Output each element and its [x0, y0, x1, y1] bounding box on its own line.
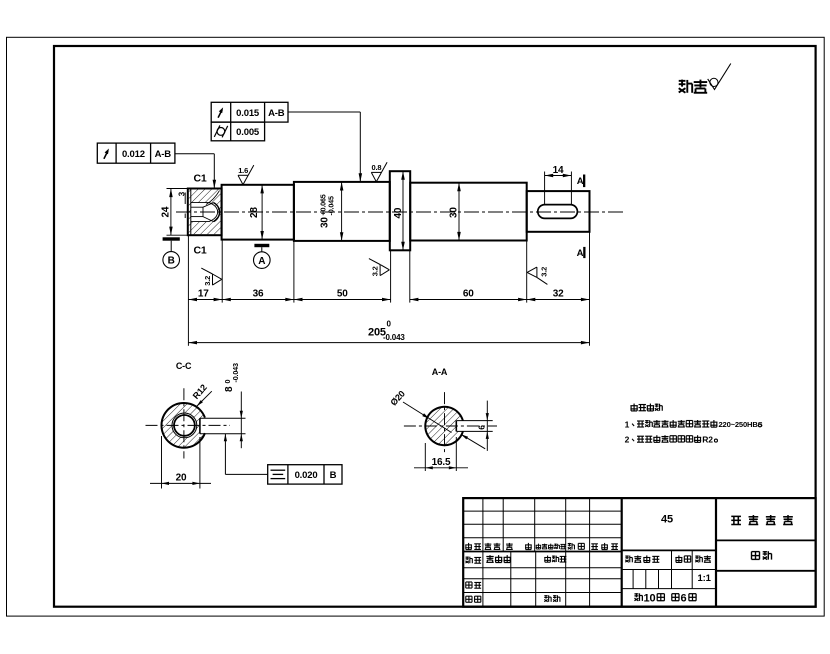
svg-text:20: 20 [176, 473, 187, 484]
dimension 40 text [393, 207, 404, 218]
leader from upper tolerance frame to shaft [288, 111, 360, 113]
svg-text:1: 1 [625, 419, 630, 429]
dimension 28 line and arrows [261, 185, 263, 240]
dimension 36 [222, 299, 294, 301]
svg-text:16.5: 16.5 [432, 457, 451, 468]
svg-text:220~250HBS: 220~250HBS [719, 420, 763, 429]
dimension 30 right text [449, 207, 460, 218]
svg-text:C1: C1 [194, 245, 207, 257]
general roughness symbol Qiyu [679, 80, 686, 82]
sheet count row [634, 593, 638, 595]
title block signature rows grid [482, 552, 484, 607]
svg-text:1.6: 1.6 [238, 166, 248, 175]
dimension 30 tolerance text [318, 194, 335, 228]
stage mark cells [622, 588, 716, 590]
svg-text:2: 2 [625, 435, 630, 445]
A-A hatched circle with keyway notch [425, 407, 463, 445]
svg-text:28: 28 [249, 207, 260, 218]
svg-text:50: 50 [337, 288, 348, 299]
dimension 30 tol line and arrows [341, 182, 343, 241]
A-A keyway corner leader [461, 434, 485, 449]
svg-text:30: 30 [449, 207, 460, 218]
A-A keyway slot lines [455, 421, 457, 432]
shaft collar (dia40) outline [390, 171, 410, 250]
svg-text:36: 36 [253, 288, 264, 299]
dimension 24 text [161, 206, 172, 217]
svg-text:60: 60 [463, 288, 474, 299]
svg-text:8: 8 [224, 386, 235, 392]
title block revision table grid [482, 498, 484, 551]
svg-text:A-B: A-B [268, 108, 285, 119]
section1 chamfer edge line [190, 189, 192, 235]
svg-text:-0.045: -0.045 [327, 196, 336, 215]
svg-text:24: 24 [161, 206, 172, 217]
A-A keyway width dim 6 [486, 401, 488, 451]
svg-text:14: 14 [553, 165, 564, 176]
inner border frame [54, 46, 816, 607]
svg-text:A: A [577, 248, 584, 259]
revision table header texts [468, 543, 470, 550]
C-C keyway notch whiteout [200, 418, 246, 434]
C-C dim 20 [161, 436, 163, 489]
C-C radius leader R12 [191, 382, 209, 401]
shaft section 4 (dia30) outline [410, 183, 527, 241]
dimension 40 line and arrows [402, 171, 404, 250]
svg-text:C1: C1 [194, 173, 207, 185]
dimension 17 [188, 299, 222, 301]
datum B symbol [163, 237, 180, 240]
svg-text:3.2: 3.2 [203, 276, 212, 286]
A-A outer circle with keyway gap [425, 407, 463, 445]
svg-text:A-B: A-B [155, 149, 172, 160]
svg-text:0.8: 0.8 [372, 163, 382, 172]
svg-text:0.005: 0.005 [236, 127, 260, 138]
small dim 3 on center hole [178, 191, 187, 196]
dimension 14 line and arrows [545, 175, 572, 177]
shaft centerline [176, 211, 626, 213]
technical requirements title [633, 404, 635, 411]
leader from symmetry frame to keyway [225, 473, 267, 475]
C-C centerlines [146, 424, 231, 426]
svg-text:R12: R12 [191, 382, 209, 401]
shaft section 5 (dia20) outline [527, 191, 590, 232]
material cell 45 [622, 549, 716, 551]
datum A symbol [254, 244, 269, 247]
svg-text:-0.043: -0.043 [383, 333, 405, 342]
roughness 3.2 at left shoulder [213, 274, 222, 279]
svg-text:6: 6 [477, 425, 487, 430]
center hole mouth arc [214, 203, 220, 222]
A-A diameter leader D20 [388, 389, 407, 408]
leader from lower tolerance frame to shaft [175, 153, 214, 155]
svg-text:B: B [330, 470, 337, 481]
svg-text:17: 17 [198, 288, 209, 299]
dimension 24 line and arrows [170, 189, 172, 236]
svg-text:10: 10 [644, 593, 656, 605]
C-C keyway slot lines [199, 418, 201, 434]
svg-text:A-A: A-A [432, 367, 448, 377]
roughness 3.2 at right shoulder [527, 267, 537, 272]
dimension 32 [527, 299, 590, 301]
university cell [716, 539, 816, 541]
A-A dim 16.5 [424, 443, 426, 471]
C-C bore circle thick [174, 415, 195, 436]
svg-text:40: 40 [393, 207, 404, 218]
shaft section1 hatching with center hole cutout [189, 189, 221, 234]
svg-text:3.2: 3.2 [540, 267, 549, 277]
svg-text:-0.043: -0.043 [231, 363, 240, 382]
dimension 30 right line and arrows [458, 183, 460, 241]
dimension 24 extension lines [167, 188, 188, 190]
A-A keyway notch whiteout [456, 421, 492, 432]
C-C hatched ring [161, 403, 206, 448]
svg-text:32: 32 [553, 288, 564, 299]
extension lines for length dimensions [187, 235, 189, 345]
shaft section 1 (dia24) outline [188, 189, 222, 236]
roughness 1.6 on section2 [238, 175, 243, 184]
svg-text:45: 45 [661, 514, 673, 526]
svg-text:A: A [577, 176, 584, 187]
C-C thread circle thin [172, 413, 197, 438]
center hole cone lines [191, 206, 203, 208]
svg-text:0.012: 0.012 [122, 149, 145, 160]
C-C keyway width dim 8 0/-0.043 [240, 392, 242, 449]
signature row texts [465, 556, 468, 558]
svg-text:A: A [258, 256, 265, 267]
tolerance frame cylindricity 0.005 row2 [211, 122, 264, 141]
A-A centerlines [404, 425, 497, 427]
keyway slot on section 5 [538, 205, 578, 219]
shaft section 3 (dia30) outline [294, 182, 390, 241]
svg-text:Ø20: Ø20 [388, 389, 407, 408]
stage mark row [622, 569, 716, 571]
svg-text:0.015: 0.015 [236, 108, 260, 119]
dimension 50 [294, 299, 391, 301]
dimension 14 extension lines [544, 172, 546, 205]
svg-text:3.2: 3.2 [371, 266, 380, 276]
svg-text:1:1: 1:1 [698, 573, 712, 584]
svg-text:0: 0 [387, 320, 392, 329]
C-C outer circle with keyway gap [161, 403, 204, 448]
tolerance frame runout 0.012 A-B [97, 143, 175, 163]
svg-text:0.020: 0.020 [295, 470, 318, 481]
svg-text:B: B [168, 256, 175, 267]
dimension 28 text [249, 207, 260, 218]
part name cell [716, 570, 816, 572]
svg-text:C-C: C-C [176, 361, 192, 371]
symmetry tolerance frame 0.020 B [268, 465, 342, 484]
overall dimension 205 line [188, 342, 589, 344]
svg-text:6: 6 [681, 593, 687, 605]
tolerance frame runout 0.015 A-B row1 [211, 102, 288, 122]
center hole breakout curve [206, 191, 220, 205]
roughness 0.8 on section3 [371, 172, 376, 181]
title block outer frame [463, 498, 815, 607]
svg-text:R2: R2 [702, 434, 713, 444]
shaft section 2 (dia28) outline [222, 185, 294, 240]
center hole detail outline [191, 203, 218, 222]
dimension 60 [410, 299, 527, 301]
roughness 3.2 at collar left face [380, 265, 389, 270]
svg-text:30: 30 [320, 217, 331, 228]
